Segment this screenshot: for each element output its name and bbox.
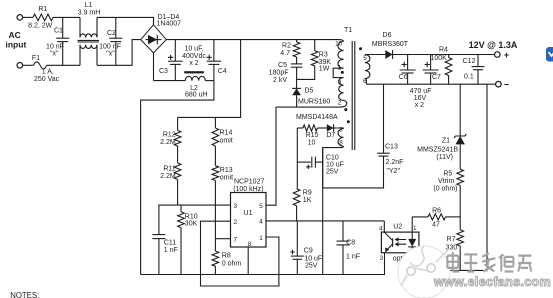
svg-text:C10: C10	[326, 154, 339, 161]
T1 pin1-pin9 link	[333, 68, 343, 77]
wire secondary return rail	[366, 83, 495, 85]
T1 secondary winding pins 5-6	[365, 54, 367, 56]
svg-text:10 nF: 10 nF	[46, 43, 64, 50]
svg-text:x 2: x 2	[189, 60, 198, 67]
wire aux node down	[296, 128, 298, 189]
svg-text:C6: C6	[399, 74, 408, 81]
capacitor C8	[342, 221, 344, 241]
svg-text:1W: 1W	[319, 66, 330, 73]
T1 polarity dot pin1	[341, 71, 344, 74]
svg-text:1 A,: 1 A,	[42, 69, 54, 76]
wire U1 pin8 to ground bus	[247, 247, 249, 275]
T1 pin8 exit wire	[340, 146, 344, 147]
svg-text:C5: C5	[278, 62, 287, 69]
capacitor C13	[383, 84, 385, 153]
resistor R5 Vtrim	[459, 144, 461, 169]
capacitor C5	[296, 57, 298, 64]
wire opto return	[412, 269, 487, 271]
svg-text:x 2: x 2	[415, 102, 424, 109]
wire R7 to bottom return	[459, 246, 461, 270]
svg-text:3: 3	[234, 203, 238, 210]
T1 core	[352, 41, 355, 150]
svg-text:400Vdc: 400Vdc	[182, 53, 206, 60]
svg-text:5: 5	[259, 203, 263, 210]
capacitor C2	[115, 17, 117, 38]
svg-text:R15: R15	[306, 132, 319, 139]
svg-text:1: 1	[413, 225, 417, 232]
svg-text:omit: omit	[220, 175, 233, 182]
T1 primary winding pins 10-1	[338, 40, 344, 42]
wire aux return vertical	[322, 148, 324, 275]
svg-text:8.2, 2W: 8.2, 2W	[28, 22, 53, 29]
diode D5 MURS160	[296, 79, 298, 88]
fuse F1	[23, 64, 34, 66]
svg-text:−: −	[504, 80, 509, 90]
wire top terminal to R1	[23, 16, 33, 18]
resistor R11	[174, 163, 181, 180]
svg-text:D5: D5	[305, 88, 314, 95]
capacitor C3	[174, 40, 176, 62]
wire U2 pin2 down	[411, 253, 413, 271]
wire VCC line to opto pin4	[383, 221, 385, 232]
wire bridge bottom corner down	[153, 53, 155, 81]
svg-text:R4: R4	[439, 47, 448, 54]
svg-text:R3: R3	[319, 52, 328, 59]
svg-text:10: 10	[335, 41, 343, 48]
svg-text:C2: C2	[107, 30, 116, 37]
svg-text:2.2nF: 2.2nF	[386, 159, 404, 166]
svg-text:3.9 mH: 3.9 mH	[78, 10, 101, 17]
svg-text:1 nF: 1 nF	[164, 247, 178, 254]
svg-text:R10: R10	[185, 213, 198, 220]
wire U1 pin4 VCC line	[266, 220, 384, 222]
T1 primary winding pins 9-2	[339, 78, 344, 101]
svg-text:8: 8	[339, 140, 343, 147]
U2 LED	[411, 232, 413, 239]
capacitor C1	[62, 17, 64, 38]
T1 aux winding pins 3-8	[336, 127, 343, 130]
svg-text:"x": "x"	[106, 51, 115, 58]
svg-text:4.7: 4.7	[280, 50, 290, 57]
svg-text:100 nF: 100 nF	[99, 43, 121, 50]
wire R11 to pin3 node	[177, 180, 179, 206]
wire F1 to C1 bottom	[47, 64, 80, 66]
diode Z1 MMSZ5241B zener	[459, 84, 461, 129]
svg-text:+: +	[504, 50, 509, 60]
svg-text:2: 2	[338, 99, 342, 106]
svg-text:10: 10	[308, 139, 316, 146]
svg-text:www.elecfans.com: www.elecfans.com	[433, 275, 551, 289]
node AC input terminal bottom	[17, 63, 23, 69]
svg-text:2: 2	[234, 219, 238, 226]
svg-text:D6: D6	[383, 32, 392, 39]
svg-text:Z1: Z1	[442, 137, 450, 144]
wire U1 pin7	[215, 238, 230, 240]
svg-text:(100 kHz): (100 kHz)	[233, 186, 263, 193]
wire R5 to R6 R7 node	[459, 186, 461, 230]
wire bottom AC to bridge left corner	[97, 40, 141, 66]
U2 light arrows	[398, 240, 406, 245]
svg-text:T1: T1	[344, 27, 352, 34]
svg-text:"x": "x"	[50, 51, 59, 58]
bridge rectifier D1-D4	[141, 25, 167, 53]
resistor R2	[296, 40, 298, 42]
svg-text:25V: 25V	[305, 263, 318, 270]
svg-text:9: 9	[338, 80, 342, 87]
wire startup feed	[178, 40, 241, 118]
svg-text:F1: F1	[32, 55, 40, 62]
wire snubber node	[297, 66, 315, 80]
svg-text:5: 5	[363, 55, 367, 62]
wire L1 to C2 top	[97, 16, 116, 18]
svg-text:input: input	[6, 40, 27, 50]
wire U1 pin2 pin1 loop	[201, 221, 279, 286]
wire secondary minus to opto return	[486, 84, 488, 270]
resistor R9	[293, 189, 300, 206]
svg-text:R14: R14	[220, 129, 233, 136]
capacitor C9	[296, 221, 298, 256]
svg-text:680 uH: 680 uH	[185, 92, 208, 99]
diode D6 MBRS360T	[367, 54, 386, 56]
capacitor C6	[407, 55, 409, 71]
optocoupler U2 box	[381, 232, 419, 253]
svg-text:"Y2": "Y2"	[386, 168, 400, 175]
svg-text:(11V): (11V)	[436, 154, 453, 161]
svg-text:7: 7	[234, 236, 238, 243]
svg-text:2.2M: 2.2M	[160, 139, 176, 146]
svg-text:1: 1	[259, 235, 263, 242]
T1 secondary polarity dot	[359, 47, 362, 50]
svg-text:C7: C7	[432, 74, 441, 81]
wire R12 to R11	[177, 146, 179, 163]
blue share icon	[546, 47, 553, 62]
svg-text:U1: U1	[243, 208, 252, 217]
svg-text:R8: R8	[222, 253, 231, 260]
wire bulk rail	[166, 39, 338, 41]
wire primary ground bus	[141, 253, 385, 275]
capacitor C7	[430, 55, 432, 71]
wire drain line	[276, 106, 338, 108]
svg-text:250 Vac: 250 Vac	[34, 76, 60, 83]
wire R10 to ground bus	[180, 228, 182, 275]
resistor R8	[214, 239, 216, 251]
svg-text:C4: C4	[218, 68, 227, 75]
svg-text:47: 47	[432, 221, 440, 228]
svg-text:3: 3	[339, 127, 343, 134]
svg-text:U2: U2	[393, 223, 402, 230]
svg-text:25V: 25V	[326, 168, 339, 175]
svg-text:MMSD4148A: MMSD4148A	[296, 114, 338, 121]
svg-text:30K: 30K	[185, 221, 198, 228]
svg-text:C8: C8	[346, 240, 355, 247]
svg-text:1K: 1K	[303, 197, 312, 204]
svg-text:R6: R6	[432, 208, 441, 215]
svg-text:R2: R2	[282, 43, 291, 50]
resistor R4	[448, 55, 450, 58]
T1 polarity dot pin2	[344, 108, 347, 111]
diode D7 MMSD4148A	[297, 127, 303, 129]
svg-text:AC: AC	[9, 30, 21, 40]
svg-text:R13: R13	[220, 167, 233, 174]
svg-text:NCP1027: NCP1027	[234, 179, 264, 186]
svg-text:C12: C12	[463, 58, 476, 65]
svg-text:R9: R9	[303, 190, 312, 197]
capacitor C10	[297, 161, 311, 163]
resistor R1	[33, 14, 53, 21]
svg-text:470 uF: 470 uF	[410, 88, 432, 95]
wire R13 down to pin7 node	[214, 181, 216, 239]
resistor R14	[214, 117, 216, 128]
svg-text:1 nF: 1 nF	[346, 254, 360, 261]
svg-text:R7: R7	[447, 236, 456, 243]
svg-text:R1: R1	[38, 6, 47, 13]
inductor L1 common-mode choke	[79, 17, 81, 37]
svg-text:4: 4	[259, 219, 263, 226]
resistor R3	[314, 40, 316, 51]
wire C2 to bridge top corner	[116, 17, 154, 24]
resistor R13	[212, 166, 219, 181]
capacitor C12	[477, 55, 479, 67]
svg-text:1N4007: 1N4007	[157, 21, 182, 28]
svg-text:C11: C11	[164, 239, 176, 246]
T1 aux polarity dot	[347, 120, 350, 123]
svg-text:L1: L1	[85, 2, 93, 9]
svg-text:C3: C3	[159, 68, 168, 75]
wire R1 to C1/L1	[53, 16, 80, 18]
capacitor C4	[213, 40, 215, 62]
T1 pin2 to drain line	[338, 100, 347, 107]
capacitor C11	[159, 205, 178, 235]
node output terminal plus	[495, 52, 501, 58]
svg-text:D7: D7	[326, 132, 335, 139]
svg-text:0 ohm: 0 ohm	[222, 260, 242, 267]
resistor R6	[412, 216, 428, 218]
watermark elecfans logo and text	[398, 246, 450, 298]
wire R8 to ground bus	[214, 266, 216, 274]
svg-text:omit: omit	[220, 137, 233, 144]
svg-text:0.1: 0.1	[464, 74, 474, 81]
svg-text:4: 4	[379, 226, 383, 233]
svg-text:NOTES:: NOTES:	[10, 291, 39, 298]
wire return to primary ground	[141, 81, 214, 275]
svg-text:12V @ 1.3A: 12V @ 1.3A	[469, 40, 518, 50]
inductor L2	[154, 80, 186, 82]
svg-text:MURS160: MURS160	[298, 99, 330, 106]
svg-text:2 kV: 2 kV	[273, 77, 287, 84]
wire U1 pin5 to drain line	[266, 107, 276, 205]
svg-text:C9: C9	[304, 247, 313, 254]
svg-text:MBRS360T: MBRS360T	[372, 41, 409, 48]
svg-text:180pF: 180pF	[269, 69, 289, 76]
node AC input terminal top	[17, 15, 23, 21]
wire R14 to R13	[214, 146, 216, 166]
resistor R10	[180, 205, 182, 212]
svg-text:R12: R12	[163, 131, 176, 138]
svg-text:MMSZ5241B: MMSZ5241B	[417, 147, 458, 154]
svg-text:R5: R5	[443, 171, 452, 178]
svg-text:R11: R11	[163, 166, 175, 173]
svg-text:C1: C1	[54, 28, 63, 35]
svg-text:8: 8	[248, 241, 252, 248]
svg-text:C13: C13	[385, 143, 398, 150]
wire U2 pin1 up to R6	[411, 217, 413, 232]
svg-text:2.2M: 2.2M	[160, 173, 176, 180]
svg-text:10 uF,: 10 uF,	[184, 46, 203, 53]
svg-text:Vtrim: Vtrim	[438, 178, 455, 185]
node output terminal minus	[496, 81, 502, 87]
wire pin3 node line	[178, 204, 231, 206]
svg-text:100K: 100K	[431, 55, 448, 62]
resistor R12	[177, 117, 179, 130]
op-amp U1 NCP1027 box	[231, 193, 267, 248]
U2 phototransistor	[392, 238, 394, 247]
svg-text:3: 3	[379, 255, 383, 262]
svg-text:(0 ohm): (0 ohm)	[433, 185, 457, 192]
resistor R7	[457, 230, 464, 246]
